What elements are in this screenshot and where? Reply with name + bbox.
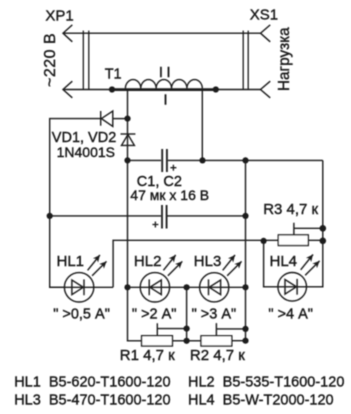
svg-text:" >4 А": " >4 А" [268,307,313,323]
junction bus B / LED row [124,284,130,290]
diode VD2 cathode bar [121,133,136,135]
wire bottom left from XP1 to T1 [63,89,112,91]
svg-text:HL2 B5-535-T1600-120: HL2 B5-535-T1600-120 [188,375,344,391]
LED HL3 diode triangle [209,280,220,295]
capacitor C1 plus sign [170,165,176,171]
junction R3 right / bus E [320,238,327,245]
wire R1 right [172,340,186,342]
connector XS1 sockets [261,25,271,98]
svg-text:Нагрузка: Нагрузка [276,27,293,91]
wire transformer right drop [201,90,203,160]
junction R2 tap / bus D [242,326,248,332]
capacitor C1 plates [162,149,167,172]
junction R2 right / bus D [242,338,248,344]
svg-text:" >0,5 А": " >0,5 А" [53,307,110,323]
junction R3 tap / bus E [320,225,327,232]
svg-text:" >2 А": " >2 А" [132,307,177,323]
transformer T1 winding I (thick line) [112,88,216,91]
junction R1 tap / bus C [184,326,190,332]
connector XP1 blades (double lines) [83,31,89,90]
wire LED row (HL1 segment) [50,286,113,288]
LED HL1 diode triangle [72,280,83,295]
wire top rail XP1 to XS1 [63,32,261,34]
svg-text:R3 4,7 к: R3 4,7 к [263,201,318,218]
svg-text:HL1 B5-620-T1600-120: HL1 B5-620-T1600-120 [14,375,170,391]
connector XP1 plug arrows [63,25,72,98]
LED HL4 cathode bar [296,279,298,295]
wire C2 row [50,215,246,217]
wire R2 right [232,340,246,342]
junction rail / HL4 left drop [261,238,267,244]
junction bus D / LED row [242,284,248,290]
svg-text:HL4 B5-W-T2000-120: HL4 B5-W-T2000-120 [188,392,334,408]
wire VD1 right to bus B [113,118,128,120]
junction T1 winding II drop / C1 row [199,157,205,163]
wire LED row (HL2-HL3 segment) [128,286,246,288]
svg-text:1N4001S: 1N4001S [57,144,115,160]
resistor R1 tap [157,323,186,336]
svg-text:HL4: HL4 [270,253,298,270]
wire left bus A (VD1 left, down to HL1) [50,119,101,288]
junction bus D / C2 row [242,213,248,219]
wire R2 left [187,340,201,342]
connector XS1 blades (double lines) [243,31,248,90]
diode VD1 triangle [101,111,112,126]
LED HL1 cathode bar [83,279,85,295]
LED HL1 emission arrows [88,255,100,270]
svg-text:47 мк х 16 В: 47 мк х 16 В [130,187,209,203]
resistor R2 tap [216,323,245,336]
LED HL3 emission arrows [223,255,235,270]
junction bus C / LED row [184,284,190,290]
svg-text:HL1: HL1 [57,253,85,270]
resistor R2 body [201,336,232,346]
junction bus D / C1 row [242,157,248,163]
wire bus D vertical [245,160,247,340]
junction bus B / C1 row [124,157,130,163]
LED HL2 diode triangle [150,280,161,295]
LED HL2 cathode bar [148,279,150,295]
wire C1 row [128,159,323,161]
svg-text:R1 4,7 к: R1 4,7 к [120,347,175,364]
svg-text:T1: T1 [105,67,122,83]
transformer T1 winding II (coil humps) [125,80,202,89]
svg-text:XP1: XP1 [45,7,73,24]
LED HL4 circle [278,273,307,302]
wire bottom right from T1 to XS1 [216,89,261,91]
junction VD1 cathode to bus B [124,116,130,122]
wire bus C vertical [186,287,188,341]
capacitor C2 plus sign [152,222,158,228]
LED HL3 cathode bar [208,279,210,295]
diode VD2 triangle [122,135,135,146]
LED HL1 circle [64,273,93,302]
LED HL2 circle [140,273,169,302]
svg-text:II: II [159,65,174,81]
junction T1 primary left [109,86,115,92]
resistor R3 tap [294,223,323,235]
LED HL3 circle [200,273,229,302]
svg-text:I: I [164,93,168,109]
junction bus A / C2 row [47,213,53,219]
wire bus E right vertical [322,160,324,240]
LED HL4 emission arrows [301,255,313,270]
resistor R1 body [142,336,173,346]
svg-text:" >3 А": " >3 А" [192,307,237,323]
wire middle rail (HL1 right, R3 left) [113,240,323,287]
LED HL2 emission arrows [163,255,175,270]
resistor R3 body [278,235,308,246]
junction R1 right / bus C [184,338,190,344]
svg-text:R2 4,7 к: R2 4,7 к [190,347,245,364]
svg-text:HL3: HL3 [194,253,222,270]
diode VD1 cathode bar [100,111,102,126]
capacitor C2 plates [162,205,167,229]
wire HL4 box [264,241,323,287]
LED HL4 diode triangle [285,280,296,295]
wire bus B vertical (transformer to R1) [128,90,142,341]
svg-text:HL3 B5-470-T1600-120: HL3 B5-470-T1600-120 [14,392,170,408]
svg-text:XS1: XS1 [250,7,278,24]
svg-text:~220 В: ~220 В [42,33,59,87]
svg-text:HL2: HL2 [134,253,162,270]
junction T1 primary right [213,86,219,92]
